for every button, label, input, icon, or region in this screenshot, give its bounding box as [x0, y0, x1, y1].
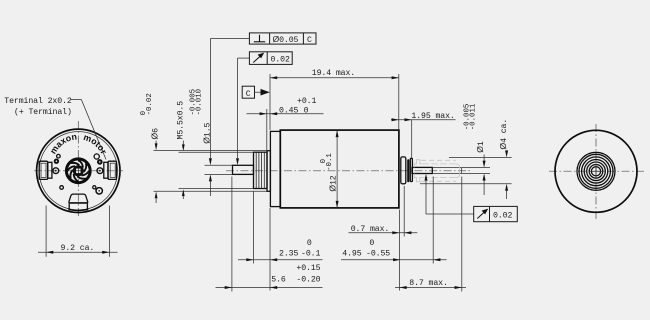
svg-text:19.4 max.: 19.4 max.	[312, 69, 355, 78]
svg-text:-0.1: -0.1	[301, 249, 320, 258]
svg-text:8.7 max.: 8.7 max.	[409, 279, 448, 288]
svg-text:2.35: 2.35	[279, 249, 298, 258]
dim 4.95	[341, 177, 447, 264]
centerline	[226, 170, 470, 172]
washer dark	[407, 159, 409, 182]
thread lines	[256, 152, 264, 188]
maxon motor logo text	[48, 131, 109, 158]
svg-text:-0.20: -0.20	[296, 276, 320, 285]
svg-text:0.02: 0.02	[493, 212, 512, 221]
dim Ø1	[462, 103, 490, 195]
svg-text:-0.55: -0.55	[366, 249, 390, 258]
ext line mounting face (shared)	[269, 74, 271, 130]
dim Ø1.5	[190, 39, 233, 197]
svg-text:Ø0.05: Ø0.05	[273, 34, 299, 45]
outer circle	[555, 130, 637, 212]
ext line body right face	[398, 74, 400, 130]
terminal left	[39, 161, 52, 179]
ring bottom-right	[96, 188, 102, 194]
shaft circle	[591, 167, 600, 176]
shaft tip	[461, 168, 463, 174]
svg-text:C: C	[307, 36, 312, 45]
svg-text:(+ Terminal): (+ Terminal)	[14, 107, 72, 117]
runout frame top	[236, 52, 292, 165]
svg-text:+0.1: +0.1	[297, 97, 316, 106]
svg-text:4.95: 4.95	[342, 249, 361, 258]
pin hole top-left	[57, 154, 61, 158]
svg-text:Ø6: Ø6	[150, 128, 161, 140]
svg-text:0.7 max.: 0.7 max.	[351, 225, 390, 234]
hub fan blades	[67, 160, 89, 182]
dim M5.5x0.5	[176, 101, 253, 199]
runout frame bottom	[425, 174, 518, 222]
dim 9.2 ca.	[38, 206, 118, 257]
svg-text:+0.15: +0.15	[296, 264, 320, 273]
motor outer circle	[37, 129, 120, 212]
center cross	[589, 170, 604, 172]
svg-text:5.6: 5.6	[271, 276, 286, 285]
hole bottom-left	[60, 186, 64, 190]
terminal right	[104, 161, 117, 179]
hub center square	[76, 168, 81, 173]
svg-text:-0.010: -0.010	[196, 89, 204, 116]
svg-text:M5.5x0.5: M5.5x0.5	[176, 101, 185, 140]
dim Ø12	[320, 130, 338, 208]
svg-text:C: C	[246, 90, 251, 99]
dim Ø4 ca.	[420, 119, 512, 199]
dim Ø6	[140, 93, 267, 203]
dim 8.7 max.	[395, 177, 466, 292]
filled ring top-right	[97, 159, 103, 165]
svg-text:0.45: 0.45	[279, 107, 298, 116]
rear shaft	[233, 165, 254, 174]
bottom tab	[69, 194, 88, 202]
svg-text:-0.02: -0.02	[146, 93, 154, 115]
svg-text:0: 0	[307, 239, 312, 248]
bearing rings	[577, 152, 615, 190]
svg-text:9.2 ca.: 9.2 ca.	[61, 244, 95, 253]
shaft thin continuation	[432, 167, 461, 169]
screw left	[53, 168, 59, 174]
dim 5.6	[216, 177, 323, 292]
dim 0.45 +0.1/0	[247, 97, 324, 150]
svg-text:0.02: 0.02	[271, 56, 290, 65]
hub center disc	[73, 165, 84, 176]
centerline horizontal	[549, 170, 645, 172]
motor inner circle	[39, 132, 117, 210]
snap ring right	[401, 157, 406, 184]
hole bottom-right small	[93, 186, 96, 189]
svg-text:-0.011: -0.011	[469, 103, 477, 130]
centerline horizontal	[34, 170, 123, 172]
dim 1.95 max.	[391, 112, 456, 158]
front cap	[270, 131, 280, 206]
perpendicularity frame	[210, 33, 316, 45]
svg-text:Ø1.5: Ø1.5	[201, 122, 212, 143]
svg-text:0: 0	[369, 239, 374, 248]
thread M5.5 boss	[254, 152, 268, 188]
centerline vertical	[77, 121, 79, 217]
svg-text:Terminal 2x0.2: Terminal 2x0.2	[4, 96, 72, 106]
centerline vertical	[595, 124, 597, 220]
svg-text:1.95 max.: 1.95 max.	[411, 112, 454, 121]
washer outline	[410, 158, 412, 181]
output shaft thick segment	[412, 167, 432, 173]
svg-text:Ø4 ca.: Ø4 ca.	[498, 119, 509, 150]
svg-text:0: 0	[304, 107, 309, 116]
leader to terminal	[71, 100, 107, 160]
svg-text:Ø12: Ø12	[327, 175, 338, 191]
bearing boss Ø6	[267, 151, 270, 192]
phantom pinion	[414, 160, 459, 182]
dim 19.4 max.	[270, 69, 399, 79]
motor body	[280, 130, 399, 208]
svg-text:-0.1: -0.1	[326, 153, 334, 171]
dim 2.35	[238, 192, 323, 264]
filled ring top-left	[54, 159, 59, 164]
screw right	[97, 168, 103, 174]
datum C box	[242, 86, 270, 99]
pin hole top-right	[94, 154, 99, 159]
hub ring	[66, 159, 90, 183]
dim 0.7 max.	[349, 186, 418, 237]
svg-text:Ø1: Ø1	[475, 141, 486, 153]
